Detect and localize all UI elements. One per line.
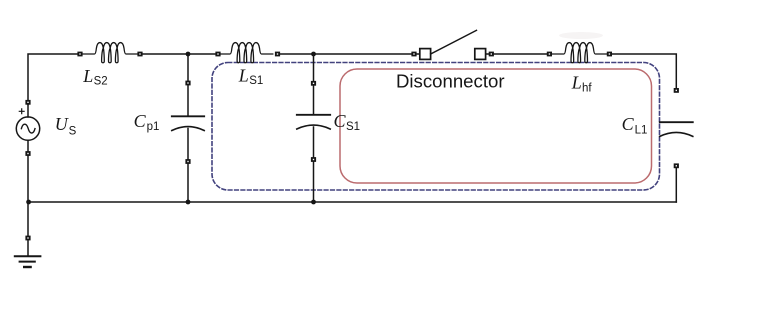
polarity + mark of U_S: [19, 109, 24, 114]
disconnector switch: right contact square: [475, 49, 486, 60]
inductor L_S1 coil: [218, 43, 273, 63]
svg-text:S: S: [69, 126, 77, 138]
terminal: disconnector left: [411, 52, 416, 57]
capacitor C_p1: [172, 115, 204, 117]
inductor L_hf coil: [552, 43, 607, 63]
disconnector switch: blade (open): [431, 30, 477, 54]
terminal: C_L1 top: [674, 88, 679, 93]
svg-text:C: C: [334, 111, 347, 131]
wire: disconnector to L_hf: [486, 53, 548, 55]
node: bottom junction at C_S1: [311, 200, 316, 205]
terminal: L_hf left: [547, 52, 552, 57]
node: bottom junction at source column: [26, 200, 31, 205]
svg-text:Disconnector: Disconnector: [396, 71, 505, 92]
wire: L_S2 to L_S1: [143, 53, 216, 55]
svg-text:C: C: [622, 114, 635, 134]
wire: bottom bus to source / ground branch: [27, 202, 29, 236]
svg-text:L: L: [82, 66, 93, 86]
wire: source stubs: [27, 105, 29, 203]
voltage source U_S: AC source circle: [16, 117, 39, 140]
wire: L_hf to top-right corner, down to C_L1: [612, 54, 677, 88]
wire: left riser + top bus to L_S2: [28, 54, 78, 105]
svg-text:L: L: [571, 73, 582, 93]
terminal: C_L1 bottom: [674, 163, 679, 168]
svg-text:p1: p1: [147, 121, 160, 133]
wire: C_L1 to bottom-right corner: [675, 168, 677, 202]
terminal: L_S2 left: [77, 52, 82, 57]
inductor L_S2 coil: [83, 43, 138, 63]
svg-text:L1: L1: [635, 125, 648, 137]
wire: C_S1 branch: [313, 54, 315, 202]
svg-text:hf: hf: [582, 83, 592, 95]
disconnector switch: left contact square: [420, 49, 431, 60]
terminal: L_S2 right: [137, 52, 142, 57]
terminal: U_S top: [25, 100, 30, 105]
wire: L_S1 to disconnector: [280, 53, 420, 55]
wire: bottom bus: [28, 201, 676, 203]
svg-text:S1: S1: [249, 75, 263, 87]
capacitor C_S1: [297, 114, 330, 116]
terminal: U_S bottom: [25, 151, 30, 156]
wire: C_p1 branch: [187, 54, 189, 202]
faint scan smudge: [559, 32, 603, 39]
svg-text:L: L: [238, 66, 249, 86]
terminal: L_hf right: [607, 52, 612, 57]
svg-text:S2: S2: [94, 75, 108, 87]
node: top junction at C_p1: [186, 52, 191, 57]
terminal: disconnector right: [489, 52, 494, 57]
terminal: C_S1 bottom: [311, 157, 316, 162]
terminal: ground branch: [25, 236, 30, 241]
terminal: C_S1 top: [311, 81, 316, 86]
ground symbol: [27, 241, 29, 257]
dashed blue enclosure (source-side network): [212, 63, 660, 191]
terminal: C_p1 top: [185, 81, 190, 86]
red enclosure (disconnector network): [340, 69, 652, 183]
node: bottom junction at C_p1: [186, 200, 191, 205]
terminal: L_S1 left: [215, 52, 220, 57]
svg-text:S1: S1: [346, 121, 360, 133]
node: top junction at C_S1: [311, 52, 316, 57]
terminal: C_p1 bottom: [185, 159, 190, 164]
svg-text:C: C: [134, 111, 147, 131]
capacitor C_L1: [660, 121, 693, 123]
svg-text:U: U: [55, 114, 69, 134]
terminal: L_S1 right: [275, 52, 280, 57]
